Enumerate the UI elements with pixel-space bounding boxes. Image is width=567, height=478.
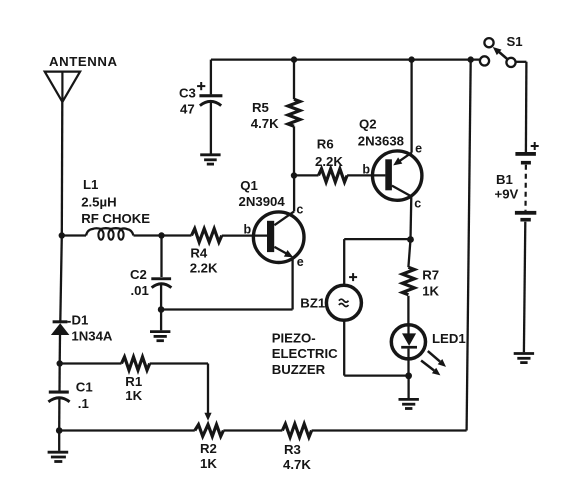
ground (C2) [150,310,170,341]
polarity + (C3) [197,82,205,90]
ground (C1) [48,431,69,462]
resistor R1 [122,357,150,370]
diode D1 [51,322,71,335]
svg-text:ANTENNA: ANTENNA [49,54,118,69]
inductor L1 [86,228,134,240]
resistor R5 [288,99,300,126]
svg-text:b: b [362,162,370,176]
wire R5 to node A [293,126,295,175]
wire Q2 collector down [409,196,412,239]
capacitor C3 [199,60,222,154]
svg-text:BZ1: BZ1 [300,295,325,310]
svg-text:RF CHOKE: RF CHOKE [81,211,150,226]
svg-text:BUZZER: BUZZER [272,362,326,377]
svg-text:e: e [297,255,304,269]
ground (C3) [200,155,220,164]
svg-text:2N3638: 2N3638 [358,133,404,148]
polarity + (B1) [531,142,539,150]
wire node A to R6 [294,174,319,176]
svg-text:47: 47 [180,101,195,116]
svg-text:ELECTRIC: ELECTRIC [272,346,338,361]
wire S1 to battery [516,61,527,63]
svg-text:1K: 1K [125,388,142,403]
wire L1 to node [134,234,192,236]
svg-text:2.2K: 2.2K [190,260,218,275]
resistor R7 [402,267,414,295]
wire BZ1 bottom horizontal [344,374,408,376]
svg-text:C2: C2 [130,267,147,282]
svg-text:R6: R6 [317,137,334,152]
node L1/R4/C2 junction [158,232,164,238]
node A (R5/R6/Q1 collector) [291,172,297,178]
wire R1 left [60,362,122,364]
antenna [45,72,80,102]
svg-text:LED1: LED1 [432,331,466,346]
transistor Q2 [373,151,422,200]
resistor R4 [192,229,222,242]
svg-text:R4: R4 [190,245,208,260]
svg-text:R2: R2 [200,441,217,456]
wire left rail (node to D1) [60,236,62,322]
svg-text:Q1: Q1 [240,178,258,193]
node C1/bottom net junction [56,427,63,434]
wire BZ1 top vertical [343,239,345,285]
svg-text:c: c [296,203,303,217]
wire junction to R7 [408,240,410,268]
wire D1 to R1 node [59,335,62,364]
svg-text:4.7K: 4.7K [251,116,279,131]
wire R1 to R2 wiper [150,362,208,364]
wire BZ1 bottom vertical [343,321,345,376]
svg-text:4.7K: 4.7K [283,457,311,472]
ground (B1) [514,354,534,363]
wire top rail [211,58,480,60]
svg-text:2.5µH: 2.5µH [81,194,116,209]
svg-text:R5: R5 [252,100,269,115]
node BZ1/R7 junction [407,236,414,243]
led arrow 1 [428,351,446,367]
svg-text:R3: R3 [284,442,301,457]
led LED1 [391,325,425,376]
svg-text:D1: D1 [72,312,89,327]
transistor Q1 [253,211,304,262]
wire R7 to LED1 [407,296,409,326]
svg-text:.1: .1 [78,396,89,411]
svg-text:1K: 1K [422,284,439,299]
svg-text:B1: B1 [496,172,513,187]
svg-text:e: e [415,142,422,156]
wire Q1 emitter down [291,259,293,310]
resistor R3 [282,424,311,437]
svg-text:R7: R7 [422,268,439,283]
ground (LED1) [399,376,419,409]
node D1/R1 junction [57,360,63,366]
wire antenna lead [61,101,64,236]
resistor R6 [319,169,348,182]
svg-text:1K: 1K [200,456,217,471]
node rail/Q2 emitter [408,56,414,62]
wire R4 to Q1 base [222,234,267,236]
svg-text:C3: C3 [179,85,196,100]
polarity + (BZ1) [349,273,357,281]
wire bottom net [59,429,195,431]
led arrow 2 [421,361,440,376]
capacitor C1 [48,364,69,431]
wire Q1 collector to node A [293,176,295,212]
wire emitter to C2 bottom [161,308,293,310]
svg-text:S1: S1 [507,34,523,49]
node rail/R5 [291,56,297,62]
R2 wiper arrow [204,413,211,421]
buzzer BZ1 [326,285,361,320]
svg-text:C1: C1 [76,379,93,394]
node rail/right branch [468,56,474,62]
svg-text:b: b [244,222,252,236]
wire BZ1 top horizontal [344,238,410,240]
switch S1 [480,38,516,67]
node antenna/L1 junction [59,232,65,238]
svg-text:Q2: Q2 [359,116,377,131]
resistor R2 (potentiometer) [195,425,224,437]
wire right side vertical [467,60,471,431]
svg-text:c: c [414,197,421,211]
svg-text:+9V: +9V [495,187,519,202]
capacitor C2 [151,236,171,310]
svg-text:2.2K: 2.2K [315,154,343,169]
node C2/emitter/ground junction [158,306,165,313]
wire rail to R5 [293,60,295,100]
battery B1 [515,62,536,353]
svg-text:PIEZO-: PIEZO- [272,331,316,346]
svg-text:2N3904: 2N3904 [239,194,286,209]
svg-text:L1: L1 [83,177,98,192]
svg-text:.01: .01 [131,283,149,298]
wire R6 to Q2 base [347,174,385,176]
svg-text:1N34A: 1N34A [71,328,113,343]
wire node to L1 [62,234,86,236]
node LED1/BZ1 ground junction [405,372,412,379]
wire rail to Q2 emitter [410,60,412,153]
